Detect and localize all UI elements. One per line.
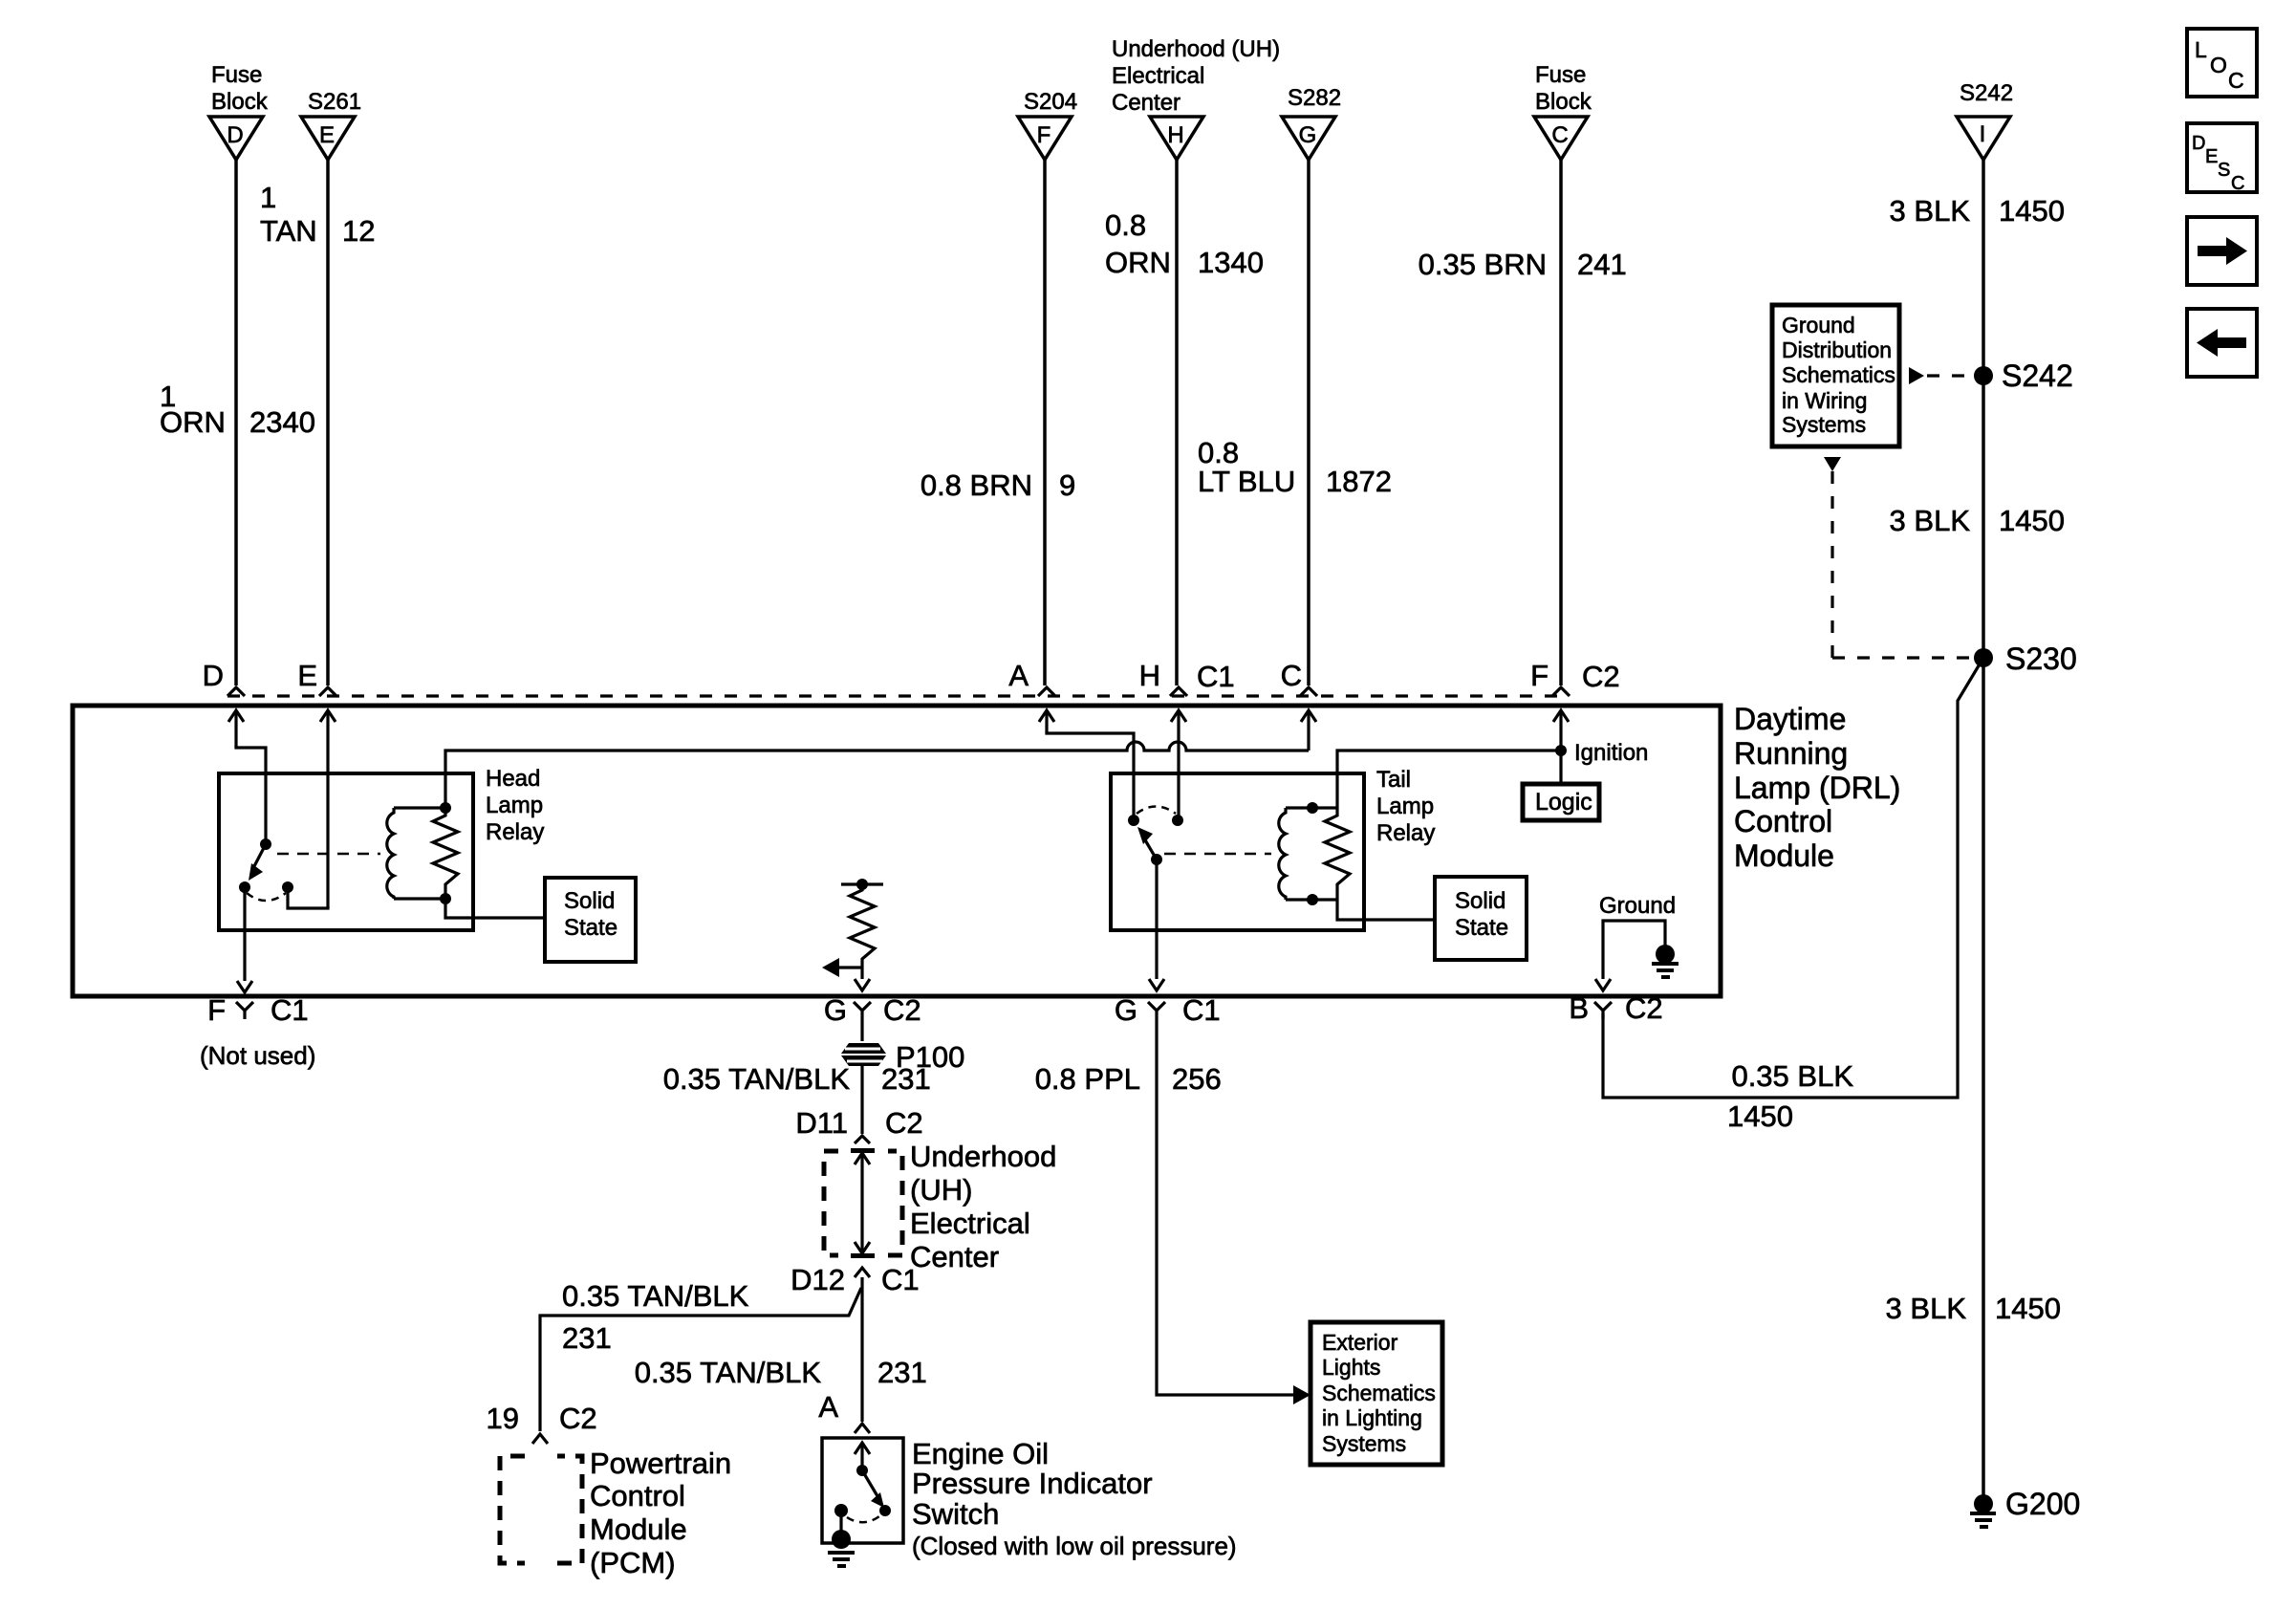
connector triangle F (S204) — [1018, 89, 1077, 160]
wire D feeder (1 ORN 2340) — [234, 160, 238, 685]
svg-text:C2: C2 — [1582, 660, 1620, 693]
svg-text:Ignition: Ignition — [1574, 740, 1648, 766]
svg-text:A: A — [1008, 659, 1029, 692]
wire label 0.8 LT BLU 1872 — [1198, 436, 1392, 498]
svg-text:1450: 1450 — [1999, 504, 2065, 537]
svg-text:3 BLK: 3 BLK — [1890, 504, 1971, 537]
svg-text:(PCM): (PCM) — [590, 1546, 676, 1579]
svg-text:ORN: ORN — [160, 405, 226, 439]
reference box Exterior Lights Schematics in Lighting Systems — [1310, 1322, 1442, 1465]
wire head relay coil supply (pin C feed) with hops over tail relay wires — [445, 742, 1309, 808]
connector triangle C (Fuse Block right) — [1534, 62, 1592, 160]
wire pin F C1 not used (from head relay contact) — [237, 887, 252, 992]
svg-text:LT BLU: LT BLU — [1198, 465, 1295, 498]
svg-text:Lamp: Lamp — [486, 793, 543, 818]
wire label 0.8 PPL 256 — [1035, 1062, 1222, 1096]
internal resistor to pin G C2 — [841, 879, 883, 968]
tail relay dashed contact arc — [1137, 807, 1176, 815]
oil switch ground contact — [828, 1504, 855, 1568]
svg-text:C1: C1 — [1197, 660, 1235, 693]
connector chevron pin G C2 (below module) — [824, 993, 921, 1041]
svg-text:S282: S282 — [1288, 85, 1341, 111]
svg-text:231: 231 — [877, 1356, 927, 1389]
svg-text:0.35 TAN/BLK: 0.35 TAN/BLK — [635, 1356, 822, 1389]
reference box Ground Distribution Schematics in Wiring Systems — [1772, 305, 1899, 446]
wire I feeder 3 BLK 1450 down to G200 — [1982, 160, 1985, 1504]
svg-text:C: C — [2228, 68, 2244, 93]
splice node S242 — [1974, 359, 2073, 393]
wire D12 to engine oil switch pin A — [860, 1277, 863, 1422]
wire E internal jog to head relay contact — [288, 887, 328, 908]
svg-text:Module: Module — [590, 1512, 687, 1546]
svg-text:12: 12 — [342, 214, 375, 248]
svg-text:State: State — [1455, 915, 1508, 941]
connector chevron pin 19 C2 (PCM) — [487, 1402, 597, 1444]
svg-text:9: 9 — [1059, 468, 1075, 502]
pin arrow A (into module) — [1039, 710, 1054, 733]
dashed link from reference box to S242 with arrowhead — [1909, 367, 1972, 384]
head relay coil/resistor rails — [394, 808, 445, 899]
PCM dashed box — [500, 1456, 582, 1563]
svg-text:0.35 BLK: 0.35 BLK — [1731, 1059, 1853, 1093]
svg-text:F: F — [1530, 659, 1549, 692]
svg-text:S242: S242 — [1960, 80, 2013, 106]
svg-text:0.35 BRN: 0.35 BRN — [1419, 248, 1547, 281]
pin arrow F (into module) — [1553, 710, 1569, 751]
wire D internal jog to head relay switch — [236, 746, 266, 844]
connector chevron pin A (oil switch) — [818, 1390, 870, 1433]
wire label 0.35 BRN 241 — [1419, 248, 1627, 281]
wire E feeder (1 TAN 12) — [326, 160, 330, 685]
svg-text:State: State — [564, 915, 617, 941]
svg-text:H: H — [1139, 659, 1160, 692]
wire label 0.35 TAN/BLK 231 (left branch) — [562, 1279, 749, 1355]
svg-text:1: 1 — [260, 181, 276, 214]
svg-text:H: H — [1167, 122, 1183, 148]
svg-text:D: D — [227, 122, 243, 148]
svg-text:Underhood (UH): Underhood (UH) — [1112, 36, 1280, 62]
tail relay switch pivot — [1128, 815, 1139, 826]
svg-text:Tail: Tail — [1376, 767, 1411, 793]
dashed link from reference box down to S230 with arrowhead — [1824, 457, 1971, 658]
svg-text:D: D — [203, 659, 224, 692]
connector chevron pin A — [1008, 659, 1055, 696]
svg-text:Block: Block — [211, 89, 269, 115]
wire label 0.35 TAN/BLK 231 (upper) — [663, 1062, 931, 1096]
svg-text:Schematics: Schematics — [1322, 1381, 1436, 1405]
wire label 1 TAN 12 — [260, 181, 375, 248]
svg-text:Control: Control — [1734, 804, 1832, 838]
svg-text:C: C — [2231, 173, 2244, 194]
connector triangle H (Underhood Electrical Center) — [1112, 36, 1280, 160]
connector chevron pin H / C1 — [1139, 659, 1235, 696]
svg-text:Solid: Solid — [1455, 888, 1505, 914]
svg-text:D12: D12 — [791, 1263, 845, 1296]
svg-text:Fuse: Fuse — [211, 62, 262, 88]
ignition junction dot and label — [1555, 740, 1648, 766]
PCM label Powertrain Control Module (PCM) — [590, 1447, 731, 1579]
svg-text:1872: 1872 — [1326, 465, 1392, 498]
wire label 0.8 ORN 1340 — [1105, 208, 1264, 279]
svg-text:1340: 1340 — [1198, 246, 1264, 279]
solid state box (tail) — [1435, 877, 1527, 960]
wire 0.8 PPL 256 to exterior lights — [1157, 1019, 1310, 1404]
splice node S230 — [1974, 642, 2077, 676]
oil switch internal up arrow and pivot — [855, 1443, 870, 1476]
connector chevron pin B C2 (below module) — [1569, 991, 1662, 1025]
wire C feeder (0.35 BRN 241) — [1559, 160, 1563, 685]
svg-text:(Closed with low oil pressure): (Closed with low oil pressure) — [912, 1532, 1237, 1560]
svg-text:256: 256 — [1172, 1062, 1222, 1096]
engine oil pressure indicator switch box — [822, 1437, 1237, 1560]
wire label 1 ORN 2340 — [160, 380, 315, 439]
svg-text:Module: Module — [1734, 838, 1834, 873]
wire label 3 BLK 1450 (middle) — [1890, 504, 2065, 537]
connector chevron pin D12 C1 — [791, 1263, 920, 1296]
svg-text:D11: D11 — [795, 1106, 848, 1140]
connector chevron pin G C1 (below module) — [1115, 993, 1221, 1027]
svg-text:Ground: Ground — [1599, 893, 1676, 919]
tail relay coil/resistor rails — [1286, 808, 1337, 900]
svg-text:0.8: 0.8 — [1105, 208, 1146, 242]
svg-text:I: I — [1980, 121, 1986, 147]
svg-text:Solid: Solid — [564, 888, 615, 914]
svg-text:C2: C2 — [559, 1402, 597, 1435]
module name Daytime Running Lamp (DRL) Control Module — [1734, 702, 1900, 873]
wire ignition supply from pin F to tail relay coil — [1337, 751, 1561, 808]
svg-text:F: F — [207, 993, 226, 1027]
wire P100 to UH center D11 (0.35 TAN/BLK 231) — [860, 1066, 863, 1134]
pin arrow D (into module) — [228, 710, 244, 748]
wire pin A internal jog to tail relay switch — [1047, 731, 1134, 820]
svg-text:C1: C1 — [881, 1263, 920, 1296]
connector chevron pin E — [297, 659, 336, 696]
svg-text:19: 19 — [487, 1402, 519, 1435]
svg-text:Running: Running — [1734, 736, 1848, 771]
svg-text:in Wiring: in Wiring — [1782, 388, 1867, 413]
svg-text:TAN: TAN — [260, 214, 317, 248]
svg-text:Head: Head — [486, 766, 540, 792]
svg-text:C2: C2 — [1625, 991, 1663, 1025]
module internal ground wire — [1595, 893, 1676, 990]
svg-text:Distribution: Distribution — [1782, 337, 1892, 362]
head lamp relay box — [219, 766, 544, 930]
svg-text:(Not used): (Not used) — [200, 1041, 315, 1070]
svg-text:Fuse: Fuse — [1535, 62, 1586, 88]
svg-text:Exterior: Exterior — [1322, 1330, 1398, 1355]
head relay contacts — [239, 881, 293, 893]
svg-text:S230: S230 — [2005, 642, 2077, 676]
svg-text:S261: S261 — [308, 89, 361, 115]
head relay coil — [387, 808, 394, 899]
connector chevron pin F / C2 — [1530, 659, 1620, 696]
svg-text:G: G — [824, 993, 847, 1027]
svg-text:3 BLK: 3 BLK — [1890, 194, 1971, 228]
svg-text:E: E — [319, 122, 335, 148]
wire G feeder (0.8 LT BLU 1872) — [1307, 160, 1310, 685]
svg-text:C1: C1 — [1182, 993, 1221, 1027]
svg-text:Powertrain: Powertrain — [590, 1447, 731, 1480]
connector triangle D (Fuse Block) — [209, 62, 269, 160]
svg-text:3 BLK: 3 BLK — [1886, 1292, 1967, 1325]
svg-text:0.35 TAN/BLK: 0.35 TAN/BLK — [562, 1279, 749, 1313]
connector triangle E (S261) — [301, 89, 361, 160]
svg-text:231: 231 — [881, 1062, 931, 1096]
wire F feeder (0.8 BRN 9) — [1043, 160, 1047, 685]
tail relay dashed mechanical link to coil — [1164, 853, 1271, 856]
svg-text:C: C — [1281, 659, 1302, 692]
legend box prev-arrow (left) — [2187, 309, 2257, 377]
wire label 0.35 TAN/BLK 231 (lower) — [635, 1356, 927, 1389]
svg-text:Center: Center — [910, 1240, 999, 1273]
svg-text:S204: S204 — [1024, 89, 1077, 115]
svg-text:Engine Oil: Engine Oil — [912, 1437, 1049, 1470]
wire D12 branch to PCM (0.35 TAN/BLK 231) — [540, 1288, 861, 1431]
pin arrow H (into module) — [1171, 710, 1186, 820]
svg-text:G: G — [1115, 993, 1137, 1027]
wire H feeder (0.8 ORN 1340) — [1175, 160, 1179, 685]
internal left-continuation arrow (solid) — [822, 958, 862, 977]
UH center internal wire with up/down arrows — [851, 1148, 875, 1258]
svg-text:Center: Center — [1112, 90, 1180, 116]
svg-text:Relay: Relay — [1376, 820, 1435, 846]
connector triangle G (S282) — [1282, 85, 1341, 160]
svg-text:C1: C1 — [271, 993, 309, 1027]
legend box LOC — [2187, 29, 2257, 97]
svg-text:(UH): (UH) — [910, 1173, 972, 1207]
head relay junction dots — [440, 802, 451, 904]
tail relay junction dots — [1307, 802, 1318, 905]
svg-text:C2: C2 — [883, 993, 921, 1027]
svg-text:Electrical: Electrical — [910, 1207, 1030, 1240]
svg-text:O: O — [2210, 53, 2227, 77]
svg-text:1450: 1450 — [1727, 1099, 1793, 1133]
svg-text:in Lighting: in Lighting — [1322, 1405, 1422, 1430]
svg-text:C: C — [1551, 122, 1568, 148]
svg-text:241: 241 — [1577, 248, 1627, 281]
svg-text:Systems: Systems — [1782, 412, 1866, 437]
head relay dashed mechanical link to coil — [277, 853, 380, 856]
connector chevron pin C — [1281, 659, 1317, 696]
svg-text:231: 231 — [562, 1321, 612, 1355]
svg-text:Pressure Indicator: Pressure Indicator — [912, 1467, 1153, 1500]
svg-text:Schematics: Schematics — [1782, 362, 1895, 387]
svg-text:Lamp: Lamp — [1376, 794, 1434, 819]
UH electrical center dashed box — [824, 1140, 1056, 1273]
svg-text:Daytime: Daytime — [1734, 702, 1846, 736]
legend box DESC — [2187, 123, 2257, 194]
wire from module pin B to S230 (0.35 BLK 1450) — [1603, 658, 1983, 1098]
head relay switch pivot — [260, 838, 271, 850]
svg-text:1450: 1450 — [1999, 194, 2065, 228]
svg-text:Lamp (DRL): Lamp (DRL) — [1734, 771, 1900, 805]
inline connector P100 — [841, 1040, 964, 1074]
svg-text:A: A — [818, 1390, 838, 1424]
connector triangle I (S242) — [1957, 80, 2013, 160]
svg-text:E: E — [297, 659, 317, 692]
svg-text:G: G — [1299, 122, 1317, 148]
head relay dashed contact arc — [247, 893, 286, 901]
svg-text:Control: Control — [590, 1479, 685, 1512]
pin arrow C (into module) — [1301, 710, 1316, 751]
svg-text:Block: Block — [1535, 89, 1592, 115]
module internal ground symbol — [1652, 945, 1679, 979]
tail relay coil — [1279, 808, 1286, 900]
svg-text:Systems: Systems — [1322, 1431, 1406, 1456]
svg-text:ORN: ORN — [1105, 246, 1171, 279]
svg-text:S: S — [2218, 160, 2230, 181]
wire label 0.35 BLK 1450 — [1727, 1059, 1853, 1133]
svg-text:Relay: Relay — [486, 819, 544, 845]
oil switch arm with arrowhead — [862, 1470, 891, 1516]
svg-text:D: D — [2192, 133, 2205, 154]
svg-text:0.8 BRN: 0.8 BRN — [921, 468, 1032, 502]
svg-text:0.35 TAN/BLK: 0.35 TAN/BLK — [663, 1062, 851, 1096]
wire tail relay to solid state — [1337, 900, 1435, 920]
wire label 3 BLK 1450 (bottom) — [1886, 1292, 2061, 1325]
wire tail relay arm to pin G C1 — [1149, 859, 1164, 990]
wire head relay to solid state — [445, 899, 545, 918]
harness dashed line across module top connectors — [227, 694, 1570, 697]
internal down arrow to pin G C2 — [855, 968, 870, 990]
logic box — [1523, 751, 1599, 820]
tail lamp relay box — [1111, 767, 1435, 930]
tail relay switch arm with arrowhead — [1137, 827, 1162, 865]
wire label 0.8 BRN 9 — [921, 468, 1075, 502]
svg-text:G200: G200 — [2005, 1487, 2080, 1521]
svg-text:C2: C2 — [885, 1106, 923, 1140]
head relay resistor — [433, 808, 458, 899]
wire label 3 BLK 1450 (top) — [1890, 194, 2065, 228]
svg-text:Underhood: Underhood — [910, 1140, 1056, 1173]
tail relay contact (pin H) — [1172, 815, 1183, 826]
svg-text:F: F — [1037, 122, 1051, 148]
solid state box (head) — [545, 878, 636, 962]
svg-text:S242: S242 — [2002, 359, 2073, 393]
svg-text:B: B — [1569, 991, 1589, 1025]
oil switch dashed contact arc — [847, 1516, 879, 1522]
tail relay resistor — [1325, 808, 1350, 900]
svg-text:1450: 1450 — [1995, 1292, 2061, 1325]
svg-text:Electrical: Electrical — [1112, 63, 1204, 89]
svg-text:L: L — [2195, 37, 2207, 62]
ground G200 — [1970, 1487, 2080, 1529]
connector chevron pin F C1 (below module) — [200, 993, 315, 1070]
pin arrow E (into module) — [320, 710, 336, 908]
svg-text:Ground: Ground — [1782, 313, 1855, 337]
DRL control module box — [73, 706, 1721, 996]
svg-text:0.8 PPL: 0.8 PPL — [1035, 1062, 1140, 1096]
svg-text:E: E — [2205, 146, 2218, 167]
svg-text:2340: 2340 — [249, 405, 315, 439]
legend box next-arrow (right) — [2187, 217, 2257, 285]
svg-text:Lights: Lights — [1322, 1355, 1380, 1380]
svg-text:Switch: Switch — [912, 1497, 999, 1531]
connector chevron pin D — [203, 659, 245, 696]
head relay switch arm with arrowhead — [249, 844, 266, 881]
svg-text:Logic: Logic — [1535, 789, 1592, 816]
connector chevron pin D11 C2 — [795, 1106, 922, 1143]
